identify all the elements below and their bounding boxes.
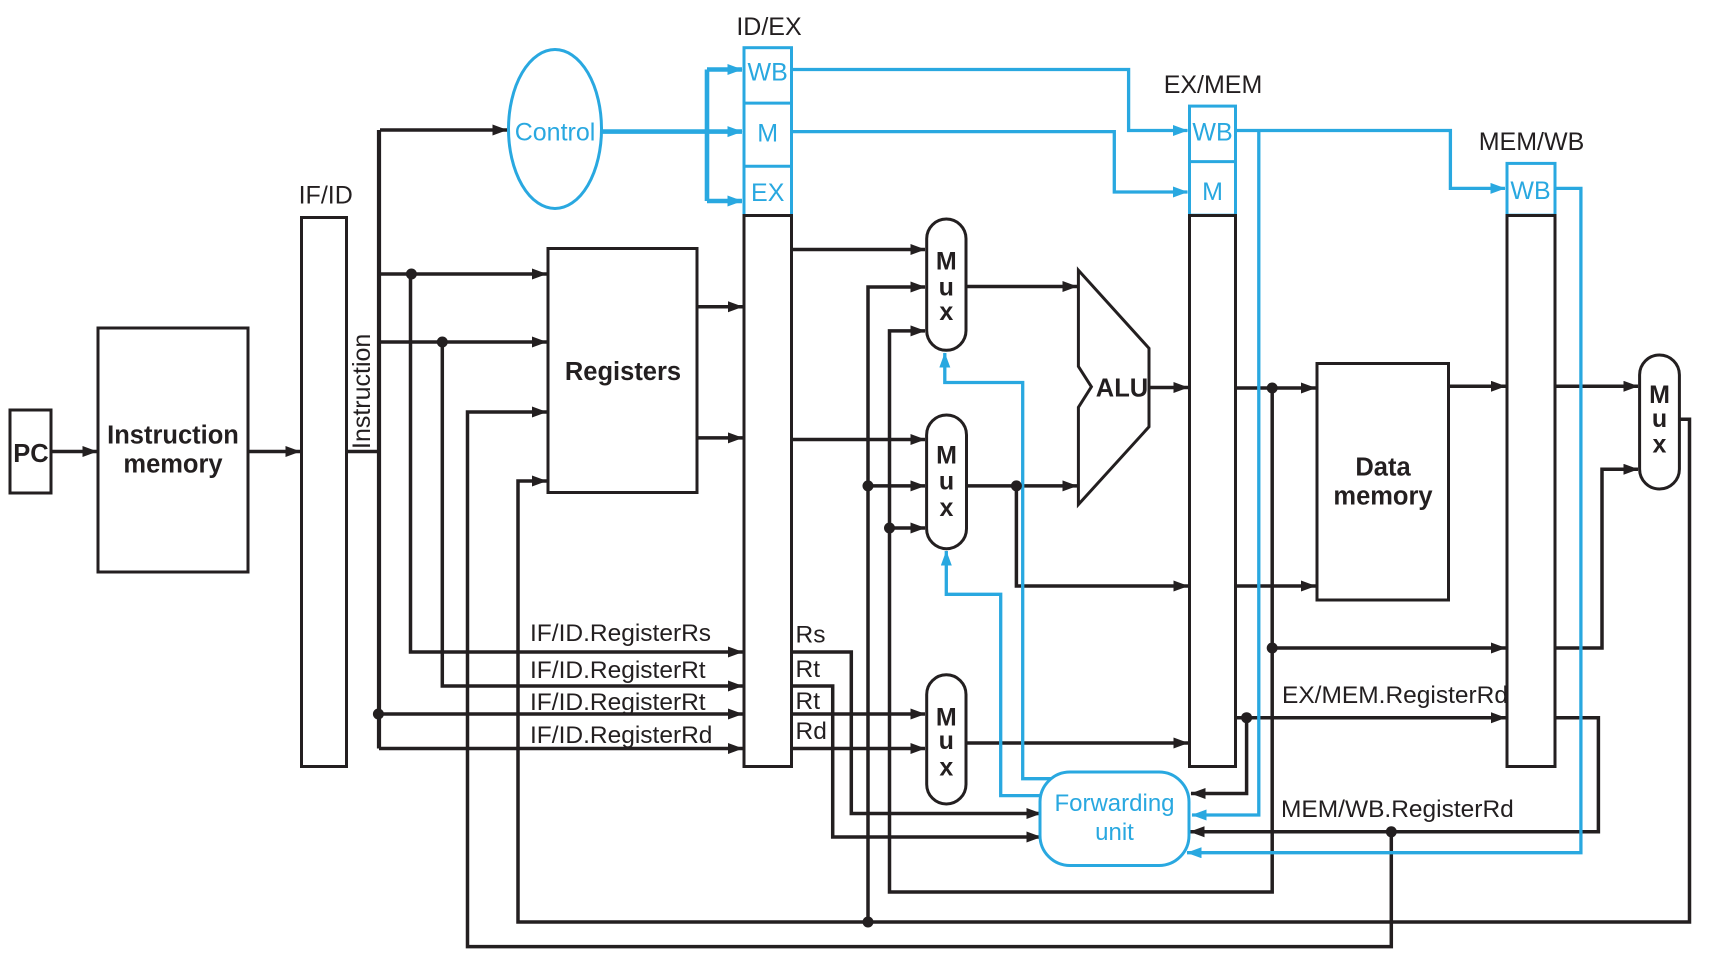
svg-text:EX/MEM.RegisterRd: EX/MEM.RegisterRd <box>1282 682 1508 709</box>
svg-text:Instruction: Instruction <box>107 422 239 450</box>
svg-text:Forwarding: Forwarding <box>1054 790 1174 817</box>
svg-text:WB: WB <box>1510 177 1550 205</box>
svg-text:M: M <box>936 442 957 470</box>
svg-text:memory: memory <box>1333 483 1433 511</box>
svg-text:IF/ID: IF/ID <box>299 182 353 210</box>
svg-text:M: M <box>1202 178 1223 206</box>
svg-text:IF/ID.RegisterRs: IF/ID.RegisterRs <box>530 620 711 647</box>
svg-text:WB: WB <box>1192 118 1232 146</box>
svg-text:u: u <box>939 468 954 496</box>
svg-text:memory: memory <box>123 451 223 479</box>
svg-text:u: u <box>1652 405 1667 433</box>
svg-text:Rd: Rd <box>796 718 827 745</box>
svg-text:Registers: Registers <box>565 358 681 386</box>
svg-text:IF/ID.RegisterRt: IF/ID.RegisterRt <box>530 657 706 684</box>
svg-text:IF/ID.RegisterRt: IF/ID.RegisterRt <box>530 689 706 716</box>
svg-text:Rt: Rt <box>796 688 821 715</box>
svg-text:x: x <box>939 754 953 782</box>
svg-text:Instruction: Instruction <box>348 334 376 449</box>
svg-text:u: u <box>939 727 954 755</box>
svg-text:Control: Control <box>515 119 596 147</box>
svg-text:unit: unit <box>1095 819 1134 846</box>
svg-text:x: x <box>939 298 953 326</box>
svg-text:M: M <box>757 119 778 147</box>
svg-text:Rt: Rt <box>796 656 821 683</box>
svg-text:IF/ID.RegisterRd: IF/ID.RegisterRd <box>530 722 712 749</box>
svg-text:Data: Data <box>1355 454 1411 482</box>
svg-text:EX: EX <box>751 179 785 207</box>
svg-text:EX/MEM: EX/MEM <box>1164 71 1263 99</box>
svg-text:Rs: Rs <box>796 622 826 649</box>
svg-text:x: x <box>940 494 954 522</box>
svg-text:ID/EX: ID/EX <box>736 13 802 41</box>
svg-text:PC: PC <box>13 440 48 468</box>
svg-text:M: M <box>936 248 957 276</box>
svg-text:x: x <box>1653 431 1667 459</box>
svg-text:WB: WB <box>748 58 788 86</box>
svg-text:MEM/WB: MEM/WB <box>1479 128 1585 156</box>
svg-text:MEM/WB.RegisterRd: MEM/WB.RegisterRd <box>1281 796 1514 823</box>
svg-text:ALU: ALU <box>1096 375 1148 403</box>
